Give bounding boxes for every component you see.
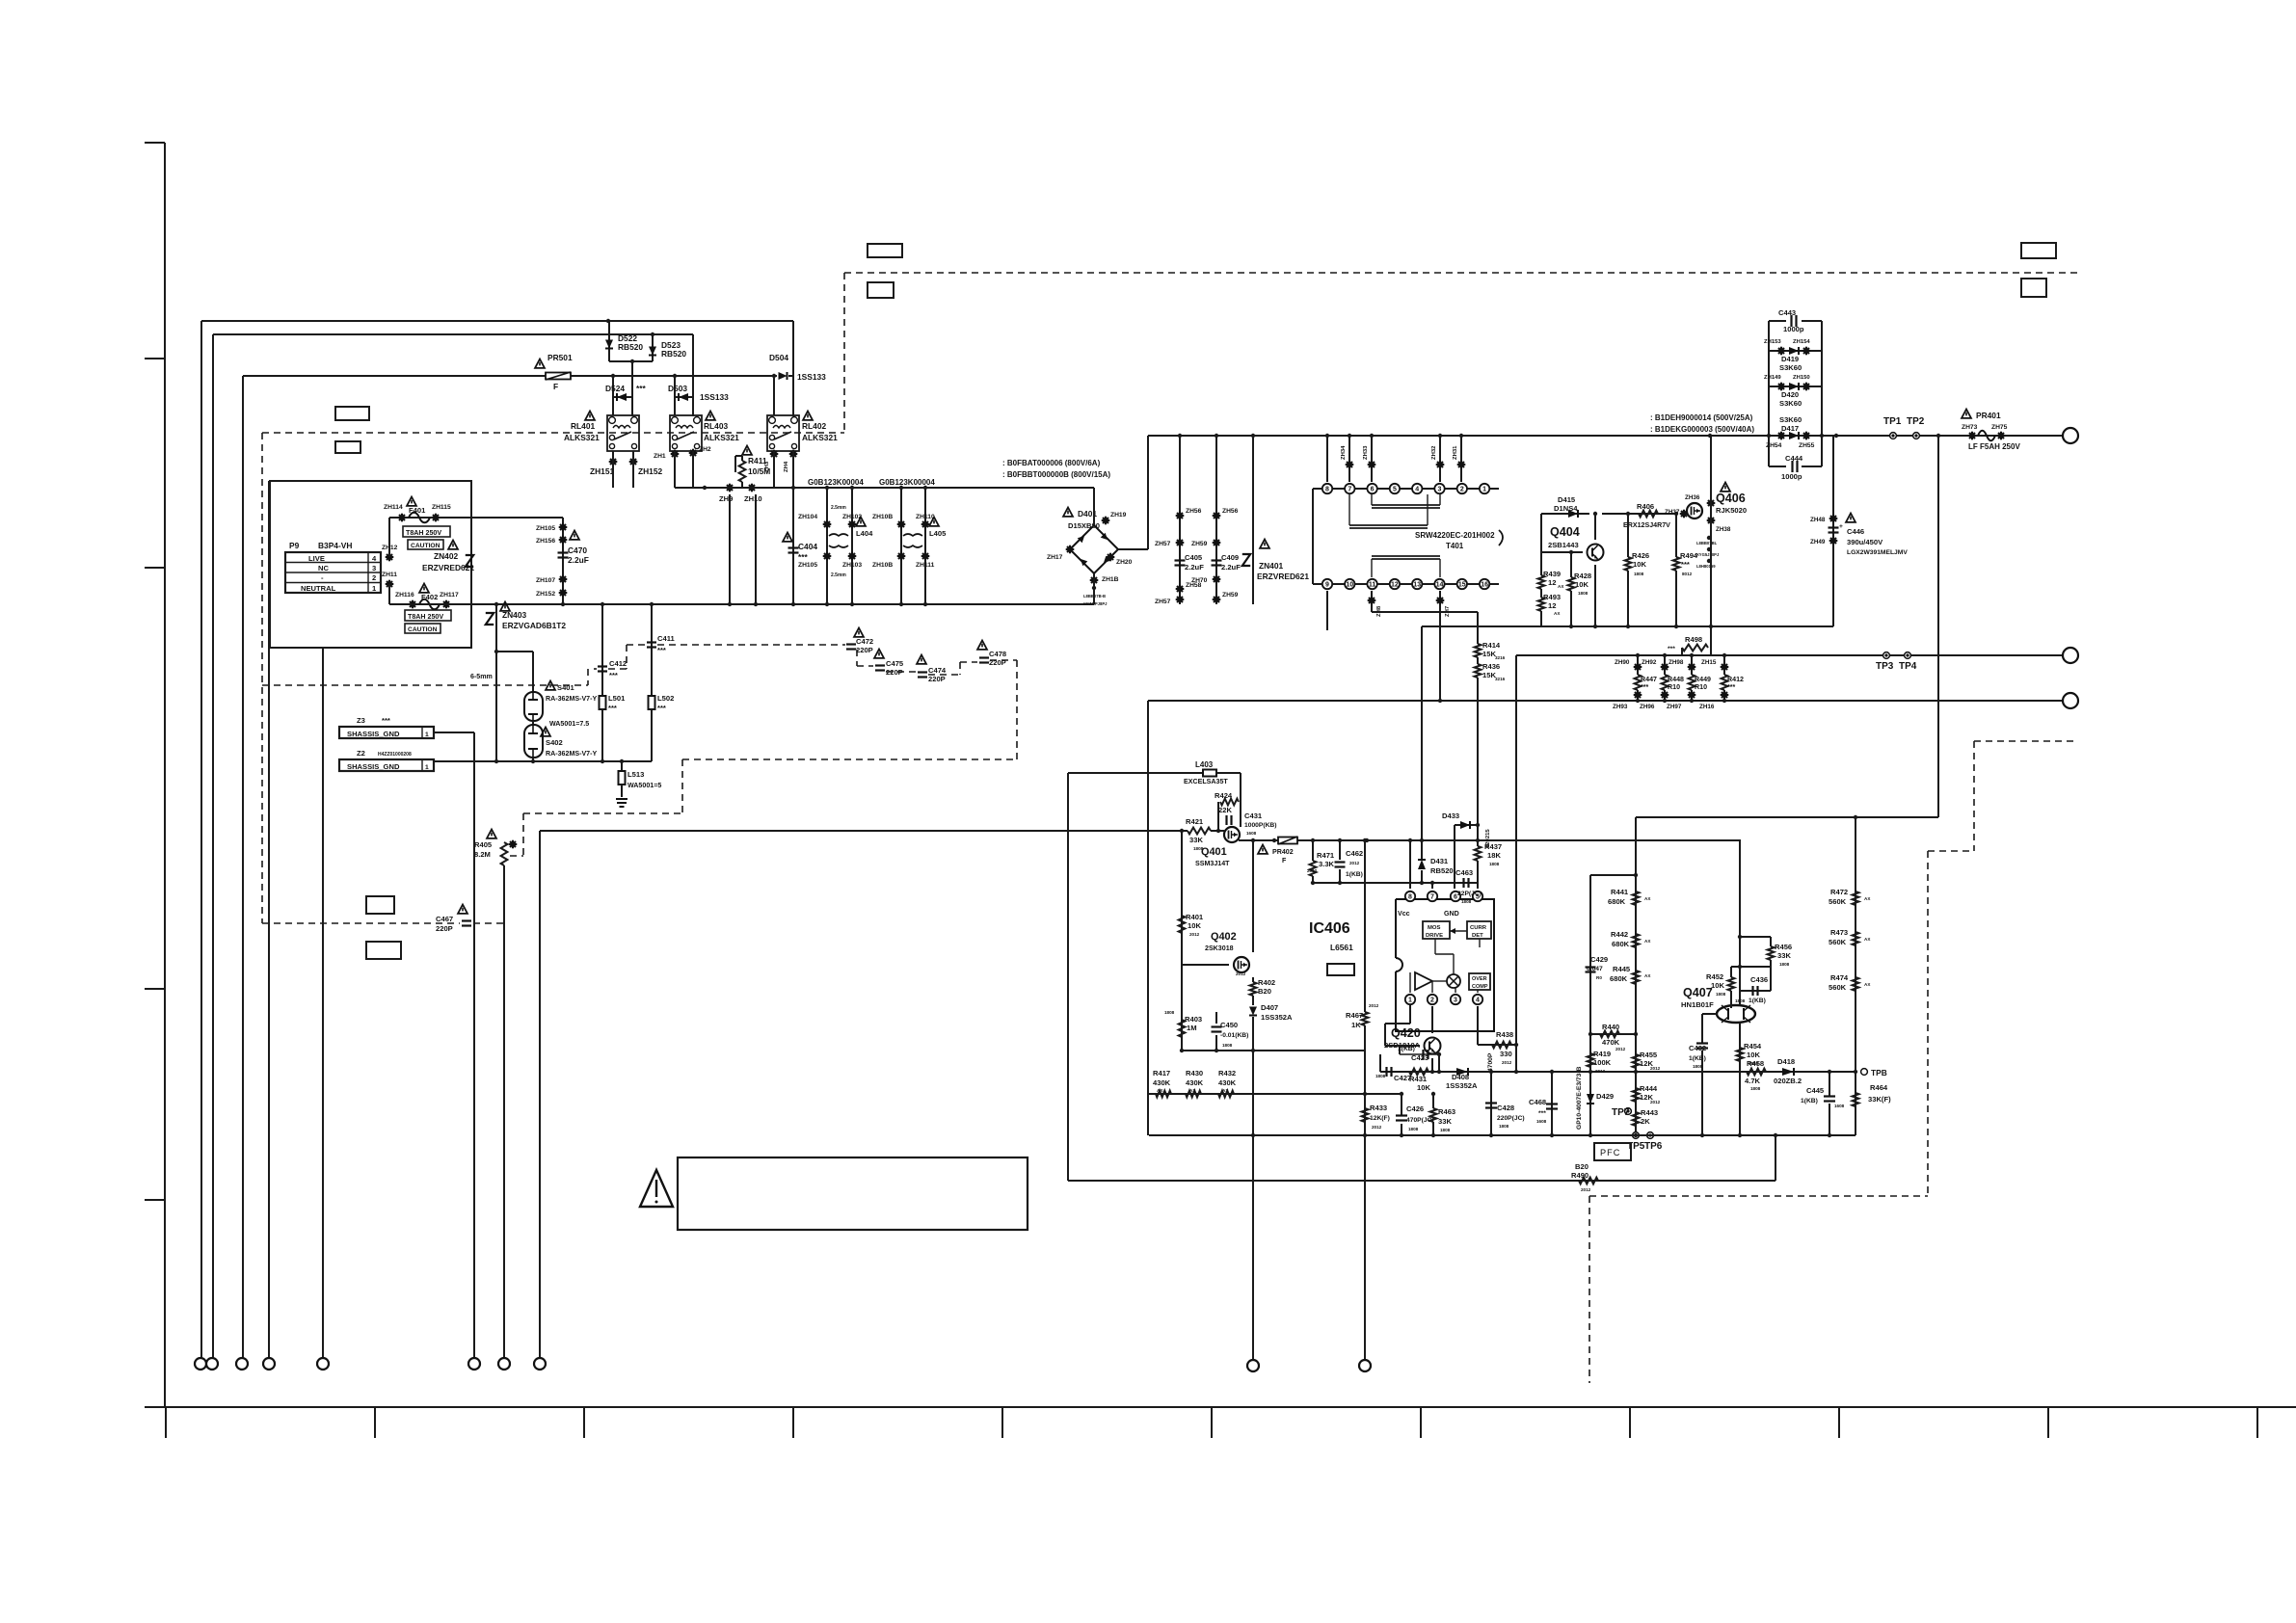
svg-text:1808: 1808 [1193, 846, 1204, 851]
svg-text:22K: 22K [1218, 806, 1232, 814]
svg-text:G0B123K00004: G0B123K00004 [879, 478, 935, 487]
T401 pin 7 [1345, 484, 1354, 493]
connector pin [1359, 1360, 1371, 1371]
IC internal wires [1409, 972, 1411, 993]
jumper ZH38 [1707, 517, 1716, 525]
svg-text:2012: 2012 [1189, 932, 1200, 937]
wire L4 filter bus [675, 487, 1094, 489]
label T8AH 250V [405, 610, 451, 621]
svg-text:D415: D415 [1558, 495, 1576, 504]
svg-text:R406: R406 [1637, 502, 1654, 511]
jumper ZH4 [789, 450, 798, 459]
resistor R494 [1675, 514, 1677, 557]
bridge output wire [1118, 548, 1148, 550]
pin7 wire [1431, 883, 1433, 889]
svg-text:***: *** [636, 384, 647, 393]
T401 pin 9 [1322, 579, 1332, 589]
varistor ZN402 [466, 555, 473, 567]
svg-text:L501: L501 [608, 694, 626, 703]
svg-text:ALKS321: ALKS321 [802, 433, 838, 442]
resistor R452 [1731, 966, 1771, 968]
ruler tick [2256, 1407, 2258, 1438]
svg-text:***: *** [1641, 683, 1649, 691]
resistor R463 [1432, 1094, 1434, 1108]
T401 pin stubs bottom [1326, 591, 1328, 630]
diode D420 row [1769, 386, 1822, 387]
fuse PR401 [1962, 410, 1971, 418]
svg-text:AX: AX [1558, 584, 1564, 589]
svg-text:RB520: RB520 [618, 342, 643, 352]
svg-text:1808: 1808 [1578, 591, 1589, 596]
svg-text:8.2M: 8.2M [474, 850, 491, 859]
svg-text:C412: C412 [609, 659, 627, 668]
svg-text:AX: AX [1864, 937, 1871, 942]
svg-text:ZH49: ZH49 [1810, 539, 1826, 545]
svg-text:3: 3 [1454, 998, 1457, 1004]
svg-text:ZH115: ZH115 [432, 504, 451, 511]
svg-text:TP2: TP2 [1907, 416, 1925, 427]
svg-text:1SS133: 1SS133 [700, 392, 729, 402]
pin5 wire [1477, 883, 1479, 889]
T401 pin 14 [1434, 579, 1444, 589]
capacitor C450 [1215, 1012, 1217, 1024]
test point TP6 [1644, 1132, 1663, 1152]
svg-text:GP10-4007E-E3/73-B: GP10-4007E-E3/73-B [1576, 1066, 1583, 1130]
svg-text:WA5001=7.5: WA5001=7.5 [549, 720, 589, 728]
svg-text:560K: 560K [1829, 983, 1847, 992]
svg-text:ZH56: ZH56 [1222, 508, 1239, 515]
svg-text:ZH150: ZH150 [1793, 375, 1810, 381]
svg-text:ZH55: ZH55 [1799, 442, 1815, 449]
svg-text:C431: C431 [1244, 811, 1263, 820]
svg-text:ZH117: ZH117 [440, 592, 459, 599]
capacitor C444 [1769, 466, 1786, 467]
ruler tick [165, 1407, 167, 1438]
svg-text:1(KB): 1(KB) [1398, 1046, 1415, 1052]
svg-text:R433: R433 [1370, 1104, 1387, 1112]
svg-text:4: 4 [1415, 487, 1419, 493]
resistor R439 [1538, 575, 1545, 589]
resistor R456 [1768, 946, 1775, 960]
ground Z3 connector [339, 727, 434, 738]
transformer T401 [1313, 488, 1499, 490]
resistor R493 [1540, 589, 1542, 598]
svg-text:ZN402: ZN402 [434, 551, 458, 561]
svg-text:2012: 2012 [1236, 971, 1246, 976]
svg-text:1K: 1K [1351, 1021, 1361, 1029]
svg-text:Q402: Q402 [1211, 931, 1237, 943]
T401 pin 13 [1412, 579, 1422, 589]
svg-text:C467: C467 [436, 915, 453, 923]
warning triangle [640, 1170, 673, 1207]
wire ZH9 drop [729, 494, 731, 604]
jumper ZH2 [689, 449, 698, 458]
svg-text:C423: C423 [1411, 1053, 1428, 1062]
svg-text:D503: D503 [668, 384, 687, 393]
svg-text:D524: D524 [605, 384, 625, 393]
bottom ruler [145, 1406, 2296, 1408]
diode D429 [1587, 1094, 1594, 1104]
svg-text:WA5001=5: WA5001=5 [627, 782, 661, 789]
svg-text:2.2uF: 2.2uF [568, 555, 589, 565]
svg-text:RL401: RL401 [571, 421, 595, 431]
svg-text:B3P4-VH: B3P4-VH [318, 541, 352, 550]
svg-text:S3K60: S3K60 [1779, 363, 1802, 372]
connector pin [206, 1358, 218, 1370]
jumper ZH19 [1102, 517, 1110, 525]
capacitor C468 [1551, 1072, 1553, 1135]
ground symbol [616, 799, 627, 807]
svg-text:2: 2 [1430, 998, 1434, 1004]
resistor R401 [1179, 916, 1186, 933]
svg-text:1808: 1808 [1634, 572, 1644, 576]
svg-text:D407: D407 [1261, 1003, 1278, 1012]
svg-text:R456: R456 [1775, 943, 1792, 951]
capacitor C432 [1702, 1013, 1717, 1015]
capacitor C445 [1829, 1072, 1830, 1096]
svg-text:R442: R442 [1611, 930, 1628, 939]
svg-text:AX: AX [1222, 1088, 1229, 1093]
svg-text:7: 7 [1348, 487, 1351, 493]
fuse F401 [388, 518, 390, 557]
transistor Q420 [1425, 1038, 1441, 1054]
capacitor C446 bulk [1832, 436, 1834, 626]
svg-text:18K: 18K [1487, 851, 1501, 860]
svg-text:1(KB): 1(KB) [1346, 871, 1363, 878]
relay RL401 [607, 415, 639, 451]
svg-text:ZH90: ZH90 [1615, 659, 1630, 666]
svg-text:AX: AX [1864, 896, 1871, 901]
svg-text:TPB: TPB [1871, 1068, 1887, 1078]
resistor R411 [741, 456, 743, 461]
resistor R424 / cap C431 parallel [1217, 802, 1219, 820]
svg-text:220P: 220P [436, 924, 453, 933]
svg-text:ZH105: ZH105 [536, 525, 555, 532]
svg-text:6-5mm: 6-5mm [470, 673, 493, 680]
svg-text:R411: R411 [748, 456, 767, 466]
callout rect [335, 441, 360, 453]
svg-text:R455: R455 [1640, 1051, 1658, 1059]
R441 column [1635, 817, 1637, 1135]
svg-text:ZH10B: ZH10B [872, 562, 893, 569]
svg-text:ALKS321: ALKS321 [564, 433, 600, 442]
svg-text:1SS352A: 1SS352A [1261, 1013, 1293, 1022]
wire L1 top bus [201, 320, 793, 322]
jumper ZH20 [1107, 553, 1115, 562]
svg-text:R447: R447 [1641, 676, 1657, 683]
svg-text:L502: L502 [657, 694, 674, 703]
svg-text:4.7K: 4.7K [1745, 1077, 1761, 1085]
inductor L501 [601, 604, 603, 696]
diode D522 [608, 321, 610, 361]
svg-text:B20: B20 [1258, 987, 1271, 996]
CURR DET block [1467, 921, 1491, 939]
capacitor C428 [1490, 1072, 1492, 1135]
svg-text:10K: 10K [1747, 1051, 1760, 1059]
jumper ZH151 [609, 458, 618, 466]
svg-text:ZH107: ZH107 [536, 577, 555, 584]
mosfet Q406 [1687, 503, 1702, 519]
zener D431 [1418, 860, 1426, 869]
svg-text:680K: 680K [1612, 940, 1630, 948]
svg-text:ZH92: ZH92 [1642, 659, 1657, 666]
svg-text:ZH154: ZH154 [1793, 339, 1810, 345]
svg-text:10K: 10K [1188, 921, 1201, 930]
IC internal amp [1415, 972, 1432, 990]
svg-text:R464: R464 [1870, 1083, 1888, 1092]
fuse PR501 [535, 359, 545, 368]
svg-text:430K: 430K [1218, 1078, 1237, 1087]
svg-text:ZH56: ZH56 [1186, 508, 1202, 515]
svg-text:XYG5J10PJ: XYG5J10PJ [1696, 552, 1720, 557]
svg-text:R401: R401 [1186, 913, 1204, 921]
vcc pin wire [1409, 840, 1411, 889]
svg-text:R473: R473 [1830, 928, 1848, 937]
svg-text:ZH75: ZH75 [1991, 424, 2008, 431]
svg-text:430K: 430K [1153, 1078, 1171, 1087]
svg-text:220P(JC): 220P(JC) [1497, 1115, 1525, 1122]
svg-text:560K: 560K [1829, 938, 1847, 946]
connector P9 table [285, 552, 381, 593]
svg-text:SHASSIS_GND: SHASSIS_GND [347, 730, 400, 738]
svg-text:RB520: RB520 [661, 349, 686, 359]
svg-text:560K: 560K [1829, 897, 1847, 906]
svg-text:1000P(KB): 1000P(KB) [1244, 822, 1276, 829]
resistor R474 [1853, 977, 1859, 991]
PFC block box [1594, 1143, 1631, 1160]
wire [609, 360, 653, 362]
jumper ZH152 [629, 458, 638, 466]
resistor R471 [1312, 840, 1314, 861]
svg-text:EXCELSA35T: EXCELSA35T [1184, 778, 1228, 785]
svg-text:+: + [1839, 523, 1843, 530]
jumper ZH116 [409, 600, 417, 609]
svg-text:1808: 1808 [1408, 1127, 1419, 1131]
svg-text:ZH98: ZH98 [1669, 659, 1684, 666]
svg-text:1808: 1808 [1499, 1124, 1509, 1129]
svg-text:2012: 2012 [1307, 868, 1318, 873]
resistor R440 [1590, 1033, 1636, 1035]
svg-text:C409: C409 [1221, 553, 1239, 562]
svg-text:Q404: Q404 [1550, 525, 1580, 539]
svg-text:-0.01(KB): -0.01(KB) [1220, 1032, 1248, 1039]
svg-text:1608: 1608 [1834, 1104, 1845, 1108]
svg-text:1808: 1808 [1716, 992, 1726, 997]
svg-text:R440: R440 [1602, 1023, 1619, 1031]
capacitor C463 [1464, 878, 1469, 888]
svg-text:RL402: RL402 [802, 421, 826, 431]
transistor Q402 [1234, 957, 1249, 972]
transistor Q404 [1588, 545, 1604, 561]
svg-text:R467: R467 [1346, 1011, 1363, 1020]
ruler tick [2047, 1407, 2049, 1438]
svg-text:ZH16: ZH16 [1699, 704, 1715, 710]
svg-text:8: 8 [1325, 487, 1329, 493]
svg-text:12: 12 [1548, 578, 1556, 587]
svg-text:430K: 430K [1186, 1078, 1204, 1087]
svg-text:1808: 1808 [1461, 899, 1472, 904]
svg-text:ZH70: ZH70 [1191, 577, 1208, 584]
svg-text:ZH103: ZH103 [842, 562, 862, 569]
svg-text:R448: R448 [1668, 676, 1684, 683]
T401 pin 3 [1434, 484, 1444, 493]
ruler tick [1838, 1407, 1840, 1438]
IC pin 5 [1473, 891, 1482, 901]
svg-text:R403: R403 [1185, 1015, 1202, 1024]
svg-text:R438: R438 [1496, 1030, 1513, 1039]
jumper ZH37 [1680, 510, 1689, 519]
svg-text:R471: R471 [1317, 851, 1335, 860]
resistor R402 [1252, 977, 1254, 982]
svg-text:2012: 2012 [1372, 1125, 1382, 1130]
svg-text:ZH15: ZH15 [1701, 659, 1717, 666]
test point TP8 [1861, 1069, 1868, 1076]
output terminal circle 3 [2063, 693, 2078, 708]
svg-text:10: 10 [1346, 582, 1353, 589]
svg-text:LGX2W391MELJMV: LGX2W391MELJMV [1847, 549, 1908, 556]
svg-text:ZH152: ZH152 [638, 466, 662, 476]
svg-text:L405: L405 [929, 529, 947, 538]
svg-text:***: *** [609, 671, 618, 679]
svg-text:10K: 10K [1633, 560, 1646, 569]
svg-text:: B1DEH9000014 (500V/25A): : B1DEH9000014 (500V/25A) [1650, 413, 1753, 422]
varistor ZN401 [1252, 436, 1254, 604]
resistor R442 [1633, 934, 1640, 947]
svg-text:2012: 2012 [1615, 1047, 1626, 1051]
bottom rail of PFC switch [1422, 625, 1833, 627]
T401 pin 6 [1367, 484, 1376, 493]
svg-text:680K: 680K [1608, 897, 1626, 906]
warning note box [678, 1157, 1028, 1230]
T401 pin 1 [1480, 484, 1489, 493]
svg-text:1: 1 [425, 732, 429, 738]
svg-text:D433: D433 [1442, 811, 1459, 820]
svg-text:R431: R431 [1409, 1075, 1428, 1083]
svg-text:D419: D419 [1781, 355, 1799, 363]
svg-text:T8AH 250V: T8AH 250V [406, 529, 441, 537]
svg-text:ZH37: ZH37 [1665, 509, 1680, 516]
relay RL402 [767, 415, 799, 451]
svg-text:1(KB): 1(KB) [1801, 1098, 1818, 1104]
svg-text:2.2uF: 2.2uF [1221, 563, 1241, 572]
svg-text:1: 1 [425, 764, 429, 771]
svg-text:ZH10B: ZH10B [872, 514, 893, 520]
gate drive line L403 [1068, 772, 1203, 774]
svg-text:LF F5AH 250V: LF F5AH 250V [1968, 442, 2020, 451]
resistor R421 [1188, 828, 1211, 835]
svg-text:TP3: TP3 [1876, 661, 1894, 672]
svg-text:RJK5020: RJK5020 [1716, 506, 1747, 515]
ground Z2 connector [339, 759, 434, 771]
capacitor C412 dashed [262, 684, 588, 686]
svg-text:2012: 2012 [1349, 861, 1360, 865]
svg-text:L403: L403 [1195, 760, 1214, 769]
svg-text:D420: D420 [1781, 390, 1799, 399]
svg-text:TP6: TP6 [1644, 1141, 1663, 1152]
svg-text:ZH59: ZH59 [1222, 592, 1239, 599]
svg-text:D504: D504 [769, 353, 788, 362]
svg-text:390u/450V: 390u/450V [1847, 538, 1883, 546]
svg-text:C404: C404 [798, 542, 817, 551]
svg-text:AX: AX [1644, 939, 1651, 944]
sense resistor R447 [1637, 655, 1639, 675]
svg-text:1808: 1808 [1779, 962, 1790, 967]
T401 pin 11 [1367, 579, 1376, 589]
output terminal circle 2 [2063, 648, 2078, 663]
svg-text:D417: D417 [1781, 424, 1799, 433]
diode D503 [674, 376, 676, 415]
svg-text:DRIVE: DRIVE [1426, 933, 1443, 939]
callout rect [2021, 279, 2046, 297]
dashed caps C472 C475 C474 C478 [854, 628, 864, 637]
ruler tick [792, 1407, 794, 1438]
svg-text:1808: 1808 [1693, 1064, 1703, 1069]
svg-text:680K: 680K [1610, 974, 1628, 983]
IC pin 8 [1405, 891, 1415, 901]
svg-text:L513: L513 [627, 770, 644, 779]
TP3 TP4 output line [1516, 654, 2062, 656]
svg-text:33K: 33K [1189, 836, 1203, 844]
svg-text:ZH57: ZH57 [1155, 541, 1171, 547]
svg-text:C478: C478 [989, 650, 1006, 658]
svg-text:S3K60: S3K60 [1779, 415, 1802, 424]
svg-text:ERZVGAD6B1T2: ERZVGAD6B1T2 [502, 621, 566, 630]
svg-text:OVER: OVER [1472, 976, 1487, 982]
dashed link to shield [522, 813, 524, 856]
svg-text:R426: R426 [1632, 551, 1649, 560]
svg-text:Q420: Q420 [1391, 1026, 1421, 1040]
svg-text:C428: C428 [1497, 1104, 1514, 1112]
label CAUTION [408, 540, 443, 549]
svg-text:1SS133: 1SS133 [797, 372, 826, 382]
fuse PR402 [1278, 837, 1297, 844]
svg-text:NC: NC [318, 564, 329, 572]
dashed shield right edge [1974, 740, 2077, 742]
IC pin 7 [1428, 891, 1437, 901]
svg-text:F: F [1282, 857, 1287, 865]
svg-text:2SB1443: 2SB1443 [1548, 541, 1579, 549]
diode D504 [779, 372, 788, 380]
svg-text:ZH48: ZH48 [1810, 517, 1826, 523]
ruler tick [1629, 1407, 1631, 1438]
svg-text:Q401: Q401 [1201, 846, 1227, 858]
resistor R403 [1179, 1020, 1186, 1037]
svg-text:1608: 1608 [1536, 1119, 1547, 1124]
callout rect [335, 407, 369, 420]
svg-text:L8BB07BL: L8BB07BL [1696, 541, 1718, 545]
gate drive wire from standby [540, 830, 1188, 832]
varistor ZN403 [495, 604, 497, 761]
jumper ZH117 [442, 600, 451, 609]
svg-text:R441: R441 [1611, 888, 1629, 896]
svg-text:ZH156: ZH156 [536, 538, 555, 545]
diode D415 [1541, 513, 1589, 515]
test point TP7 [1612, 1107, 1631, 1118]
svg-text:3.3K: 3.3K [1319, 860, 1335, 868]
svg-text:R419: R419 [1593, 1050, 1611, 1058]
IC pin 3 [1451, 995, 1460, 1004]
svg-text:020ZB.2: 020ZB.2 [1774, 1077, 1802, 1085]
svg-text:AX: AX [1864, 982, 1871, 987]
wire [1515, 655, 1517, 1072]
diode D408 [1456, 1068, 1468, 1076]
label T8AH 250V [403, 526, 450, 537]
svg-text:2012: 2012 [1650, 1066, 1661, 1071]
svg-text:ZH33: ZH33 [1363, 445, 1369, 460]
snubber C409 column [1215, 436, 1217, 604]
mosfet Q401 [1224, 827, 1240, 842]
svg-text:R428: R428 [1574, 572, 1591, 580]
